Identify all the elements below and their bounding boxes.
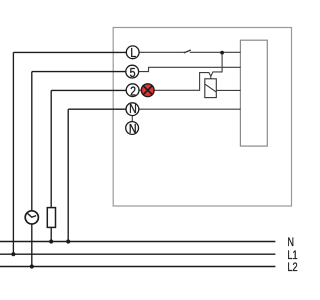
svg-text:N: N <box>129 121 137 136</box>
svg-text:2: 2 <box>130 83 136 98</box>
svg-text:5: 5 <box>130 65 136 80</box>
svg-text:N: N <box>129 101 137 116</box>
svg-text:L2: L2 <box>287 261 297 275</box>
svg-text:N: N <box>287 236 294 250</box>
svg-text:L: L <box>130 45 136 60</box>
